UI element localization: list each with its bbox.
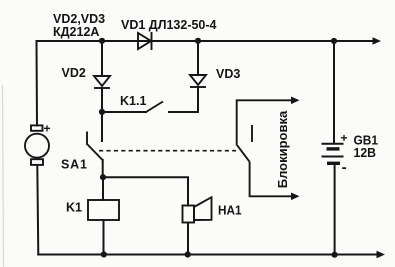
node D K1.1 / SA1 [99, 109, 105, 115]
svg-text:VD3: VD3 [216, 67, 240, 81]
svg-text:SA1: SA1 [61, 158, 87, 172]
relay coil K1 [88, 200, 119, 220]
node E SA1 / K1 / HA1 [100, 174, 106, 180]
wire node to HA1 [103, 177, 188, 205]
diode VD2 [94, 76, 110, 88]
wire VD2 cathode to node [101, 88, 103, 112]
switch SA1 [87, 132, 103, 161]
svg-text:12В: 12В [354, 146, 377, 160]
battery GB1 plates [322, 144, 344, 164]
diode VD1 [138, 32, 152, 50]
node A top rail / VD2 [99, 38, 105, 44]
svg-text:VD1 ДЛ132-50-4: VD1 ДЛ132-50-4 [121, 18, 217, 32]
wire K1 coil to bottom rail [103, 220, 105, 255]
sounder HA1 [183, 197, 212, 222]
wire HA1 to bottom rail [187, 223, 189, 255]
relay contact K1.1 [146, 102, 163, 113]
svg-text:+: + [44, 122, 51, 136]
wire SA1 upper terminal [101, 112, 103, 141]
wire battery bottom [334, 164, 336, 255]
arrow top rail right [373, 37, 382, 45]
node H bottom rail / battery [332, 252, 338, 258]
dashed mechanical link [99, 150, 236, 152]
diode VD3 [190, 75, 206, 87]
svg-text:Блокировка: Блокировка [275, 110, 290, 188]
node G bottom rail / HA1 [185, 251, 191, 257]
blocking switch fixed contact [251, 125, 253, 142]
wire K1.1 left [102, 111, 146, 113]
wire left rail lower [37, 165, 38, 255]
svg-text:КД212А: КД212А [53, 25, 99, 39]
blocking switch lower lead with arrow [250, 162, 292, 197]
wire VD2 anode [101, 41, 103, 76]
wire node to K1 coil [102, 177, 104, 200]
svg-text:HA1: HA1 [218, 202, 242, 217]
svg-text:VD2: VD2 [62, 66, 86, 80]
node B top rail / VD3 [195, 38, 201, 44]
blocking switch blade [237, 145, 249, 162]
wire top rail [37, 40, 375, 42]
blocking switch upper lead with arrow [237, 100, 292, 145]
wire SA1 lower terminal [102, 160, 104, 177]
wire VD3 anode [197, 41, 199, 75]
svg-text:+: + [341, 131, 348, 145]
wire left rail upper [36, 41, 39, 126]
node C top rail / battery [331, 38, 337, 44]
wire VD3 cathode down [169, 87, 198, 112]
svg-text:K1: K1 [66, 201, 82, 215]
node F bottom rail / K1 [101, 251, 107, 257]
wire battery top [333, 41, 335, 144]
svg-text:K1.1: K1.1 [120, 94, 146, 108]
motor M [25, 125, 49, 164]
scan artifact left edge [3, 85, 4, 267]
svg-text:-: - [342, 159, 347, 176]
arrow bottom rail right [377, 251, 386, 259]
wire bottom rail [38, 254, 378, 256]
